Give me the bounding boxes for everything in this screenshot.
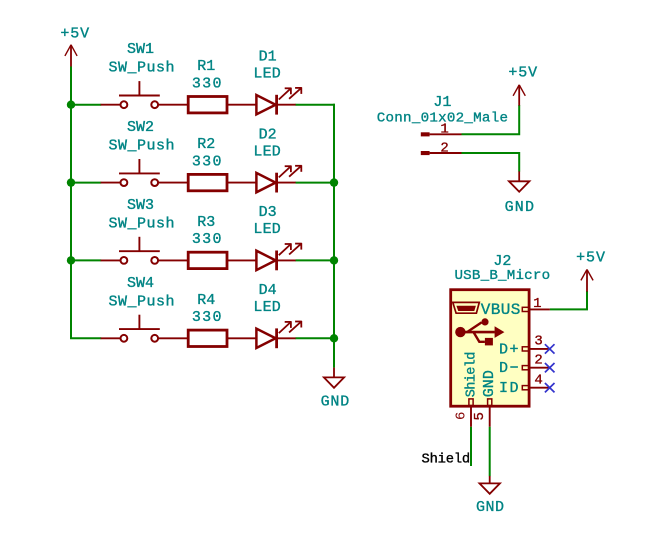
pin 3 number (J2): [534, 334, 542, 350]
label R1: [197, 58, 215, 75]
svg-text:330: 330: [192, 153, 223, 170]
svg-text:330: 330: [192, 75, 223, 92]
resistor R1: [188, 97, 256, 113]
pin 2 number (J2): [534, 352, 542, 368]
value SW_Push (SW3): [109, 215, 176, 232]
pin 2 number (J1): [440, 140, 448, 156]
wire right rail vertical: [333, 104, 335, 368]
svg-text:SW1: SW1: [127, 41, 154, 58]
label R4: [197, 292, 215, 309]
junction right rail row2: [330, 178, 338, 186]
switch SW4: [101, 315, 188, 342]
value SW_Push (SW1): [109, 60, 176, 77]
junction right rail row4: [330, 334, 338, 342]
pin name ID: [499, 380, 520, 397]
svg-text:3: 3: [534, 334, 542, 350]
svg-text:Shield: Shield: [464, 352, 479, 397]
power +5V (left rail): [60, 26, 90, 68]
value LED (D2): [253, 143, 281, 160]
pin 6 Shield (J2): [469, 399, 473, 427]
wire row4 rail to SW4: [70, 337, 101, 339]
svg-text:+5V: +5V: [576, 250, 606, 267]
value SW_Push (SW4): [109, 293, 176, 310]
wire row3 D3 to right rail: [296, 259, 335, 261]
net label Shield: [422, 451, 470, 467]
label D1: [259, 48, 277, 65]
label D4: [259, 282, 277, 299]
wire +5V left rail vertical: [70, 67, 72, 339]
wire J2 pin5 to GND: [489, 427, 491, 476]
svg-text:USB_B_Micro: USB_B_Micro: [454, 268, 550, 284]
junction left rail row2: [67, 178, 75, 186]
switch SW3: [101, 237, 188, 264]
label SW3: [127, 197, 154, 214]
pin 1 VBUS (J2): [522, 307, 550, 311]
value 330 (R1): [192, 75, 223, 92]
label J1: [433, 94, 451, 111]
svg-text:SW_Push: SW_Push: [109, 293, 176, 310]
svg-text:1: 1: [440, 122, 448, 138]
ground GND (J2): [476, 476, 505, 516]
no-connect X on pin 4: [545, 383, 555, 392]
resistor R2: [188, 174, 256, 190]
LED D1: [256, 87, 301, 114]
pin 5 GND (J2): [488, 399, 492, 427]
resistor R4: [188, 330, 256, 346]
svg-text:+5V: +5V: [60, 26, 90, 43]
value 330 (R3): [192, 231, 223, 248]
svg-text:LED: LED: [253, 143, 281, 160]
svg-text:R4: R4: [197, 292, 215, 309]
junction left rail row3: [67, 256, 75, 264]
svg-text:D2: D2: [259, 126, 277, 143]
svg-text:5: 5: [472, 412, 488, 420]
value LED (D4): [253, 299, 281, 316]
LED D2: [256, 165, 301, 192]
value 330 (R4): [192, 309, 223, 326]
svg-text:+5V: +5V: [508, 65, 538, 82]
value USB_B_Micro (J2): [454, 268, 550, 284]
svg-text:Shield: Shield: [422, 451, 470, 467]
svg-text:SW3: SW3: [127, 197, 154, 214]
label SW2: [127, 119, 154, 136]
svg-text:R2: R2: [197, 136, 215, 153]
svg-text:D4: D4: [259, 282, 277, 299]
label R2: [197, 136, 215, 153]
svg-text:D3: D3: [259, 204, 277, 221]
wire J1 pin1 to +5V: [462, 105, 520, 134]
pin 4 number (J2): [534, 372, 542, 388]
ground GND (right rail): [321, 368, 350, 411]
svg-text:J1: J1: [433, 94, 451, 111]
pin 1 number (J1): [440, 122, 448, 138]
ground GND (J1): [505, 171, 536, 216]
no-connect X on pin 2: [545, 363, 555, 372]
USB plug icon (J2): [453, 302, 480, 313]
svg-text:SW4: SW4: [127, 275, 154, 292]
svg-text:D−: D−: [499, 360, 520, 377]
USB trident icon (J2): [455, 318, 504, 345]
svg-text:LED: LED: [253, 299, 281, 316]
junction left rail row1: [67, 101, 75, 109]
label D3: [259, 204, 277, 221]
wire J2 pin1 to +5V: [550, 291, 587, 309]
wire row2 rail to SW2: [70, 182, 101, 184]
svg-text:D1: D1: [259, 48, 277, 65]
pin 6 number (J2): [453, 412, 469, 420]
value SW_Push (SW2): [109, 138, 176, 155]
svg-text:330: 330: [192, 231, 223, 248]
pin 1 number (J2): [533, 296, 541, 312]
svg-text:4: 4: [534, 372, 542, 388]
svg-text:VBUS: VBUS: [481, 301, 521, 319]
svg-text:R3: R3: [197, 214, 215, 231]
value Conn_01x02_Male (J1): [377, 111, 508, 127]
wire row4 D4 to right rail: [296, 337, 335, 339]
svg-text:330: 330: [192, 309, 223, 326]
LED D3: [256, 243, 301, 270]
svg-text:SW_Push: SW_Push: [109, 60, 176, 77]
label R3: [197, 214, 215, 231]
svg-text:LED: LED: [253, 66, 281, 83]
svg-text:6: 6: [453, 412, 469, 420]
power +5V (J1): [508, 65, 538, 106]
wire row1 rail to SW1: [70, 104, 101, 106]
svg-text:SW_Push: SW_Push: [109, 215, 176, 232]
svg-text:R1: R1: [197, 58, 215, 75]
resistor R3: [188, 252, 256, 268]
wire row3 rail to SW3: [70, 259, 101, 261]
junction right rail row3: [330, 256, 338, 264]
svg-text:GND: GND: [321, 394, 350, 411]
switch SW1: [101, 81, 188, 108]
svg-text:SW_Push: SW_Push: [109, 138, 176, 155]
label J2: [493, 253, 511, 270]
pin 3 D+ (J2): [522, 347, 549, 351]
svg-text:2: 2: [440, 140, 448, 156]
value 330 (R2): [192, 153, 223, 170]
switch SW2: [101, 159, 188, 186]
label SW4: [127, 275, 154, 292]
wire J1 pin2 to GND: [462, 153, 520, 172]
svg-text:ID: ID: [499, 380, 520, 397]
power +5V (J2): [576, 250, 606, 292]
connector J2 USB_B_Micro body: [451, 290, 529, 407]
svg-text:GND: GND: [505, 199, 536, 216]
svg-text:LED: LED: [253, 221, 281, 238]
svg-text:SW2: SW2: [127, 119, 154, 136]
svg-text:1: 1: [533, 296, 541, 312]
connector J1: [421, 132, 462, 155]
wire J2 pin6 to Shield label: [470, 427, 472, 466]
pin 2 D− (J2): [522, 366, 549, 370]
wire row2 D2 to right rail: [296, 182, 335, 184]
label D2: [259, 126, 277, 143]
svg-text:2: 2: [534, 352, 542, 368]
wire row1 D1 to right rail: [296, 104, 335, 106]
value LED (D3): [253, 221, 281, 238]
pin name Shield (vertical): [464, 352, 479, 397]
pin 5 number (J2): [472, 412, 488, 420]
svg-text:D+: D+: [499, 341, 520, 358]
pin name D−: [499, 360, 520, 377]
svg-text:GND: GND: [481, 370, 498, 397]
LED D4: [256, 321, 301, 348]
label SW1: [127, 41, 154, 58]
pin 4 ID (J2): [522, 386, 549, 390]
pin name VBUS: [481, 301, 521, 319]
pin name D+: [499, 341, 520, 358]
pin name GND (vertical): [481, 370, 498, 397]
no-connect X on pin 3: [545, 344, 555, 353]
svg-text:GND: GND: [476, 499, 505, 516]
value LED (D1): [253, 66, 281, 83]
